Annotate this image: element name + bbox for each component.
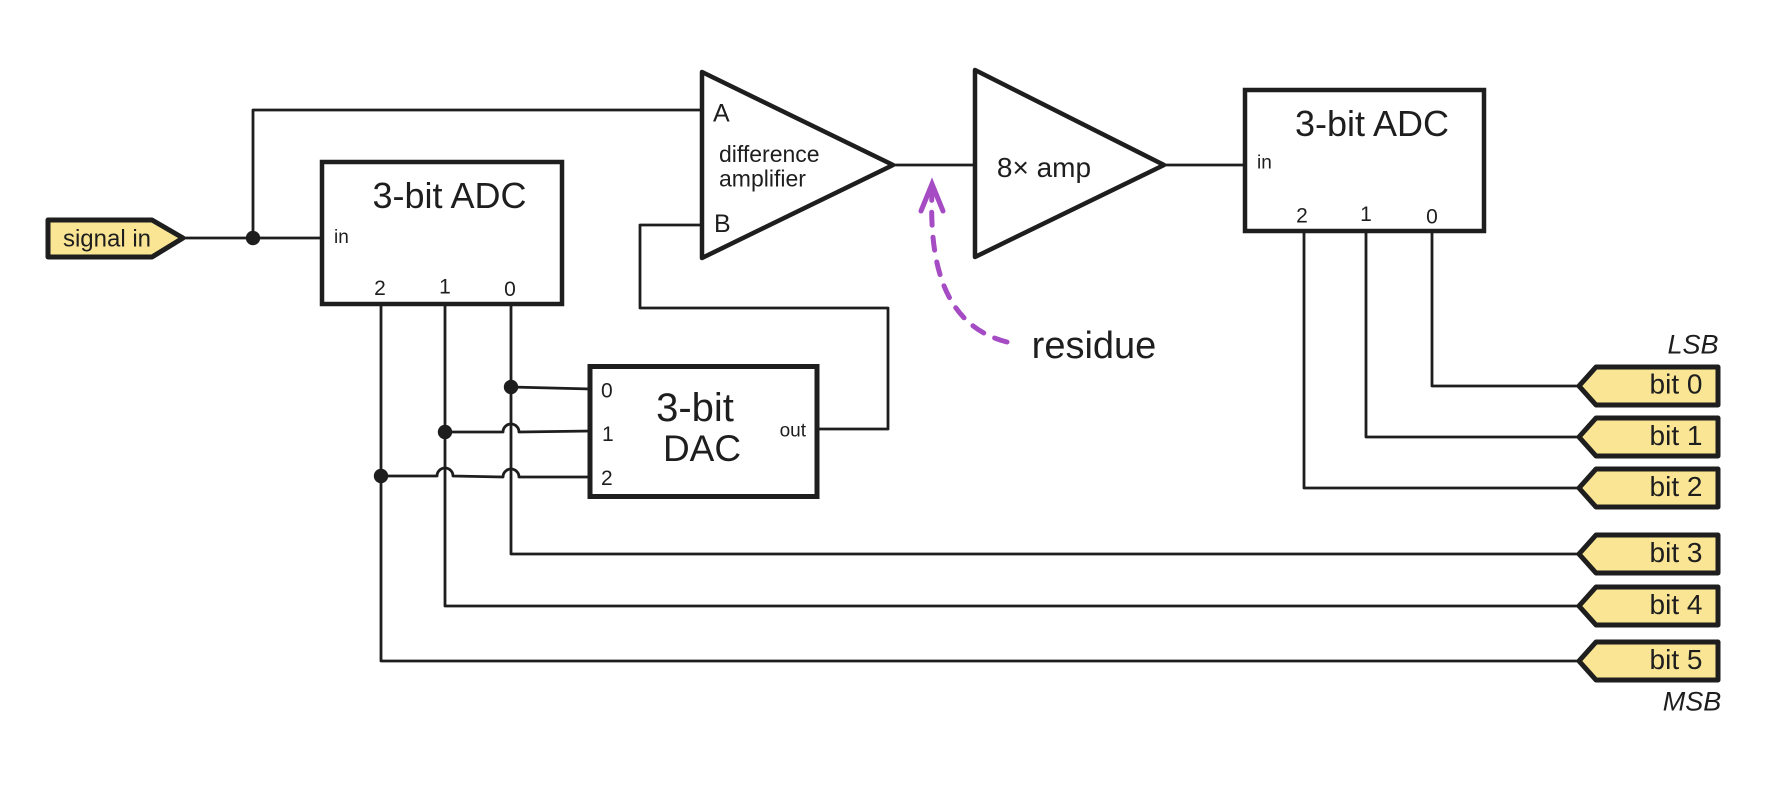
svg-text:signal in: signal in bbox=[63, 226, 151, 253]
svg-text:bit 2: bit 2 bbox=[1650, 471, 1703, 502]
svg-text:2: 2 bbox=[601, 467, 613, 490]
svg-text:DAC: DAC bbox=[663, 428, 741, 469]
svg-text:LSB: LSB bbox=[1667, 330, 1718, 360]
svg-text:amplifier: amplifier bbox=[719, 166, 806, 192]
svg-text:residue: residue bbox=[1032, 325, 1157, 367]
svg-text:2: 2 bbox=[374, 277, 386, 300]
svg-text:1: 1 bbox=[602, 423, 614, 446]
svg-text:in: in bbox=[334, 227, 349, 248]
svg-text:bit 3: bit 3 bbox=[1650, 537, 1703, 568]
svg-text:3-bit ADC: 3-bit ADC bbox=[372, 175, 526, 216]
svg-text:0: 0 bbox=[504, 278, 516, 301]
svg-text:3-bit ADC: 3-bit ADC bbox=[1295, 103, 1449, 144]
svg-text:1: 1 bbox=[1360, 203, 1372, 226]
svg-text:bit 4: bit 4 bbox=[1650, 589, 1703, 620]
svg-text:3-bit: 3-bit bbox=[656, 386, 734, 430]
svg-text:A: A bbox=[713, 100, 730, 128]
svg-text:in: in bbox=[1257, 153, 1272, 174]
svg-text:1: 1 bbox=[439, 276, 451, 299]
svg-text:0: 0 bbox=[1426, 206, 1438, 229]
svg-text:bit 1: bit 1 bbox=[1650, 420, 1703, 451]
svg-text:2: 2 bbox=[1296, 205, 1308, 228]
svg-text:bit 0: bit 0 bbox=[1650, 369, 1703, 400]
svg-text:8× amp: 8× amp bbox=[997, 152, 1091, 183]
svg-text:B: B bbox=[714, 210, 731, 238]
svg-text:0: 0 bbox=[601, 380, 613, 403]
svg-text:MSB: MSB bbox=[1663, 687, 1722, 717]
svg-text:bit 5: bit 5 bbox=[1650, 644, 1703, 675]
svg-text:difference: difference bbox=[719, 141, 820, 167]
svg-text:out: out bbox=[780, 421, 807, 442]
